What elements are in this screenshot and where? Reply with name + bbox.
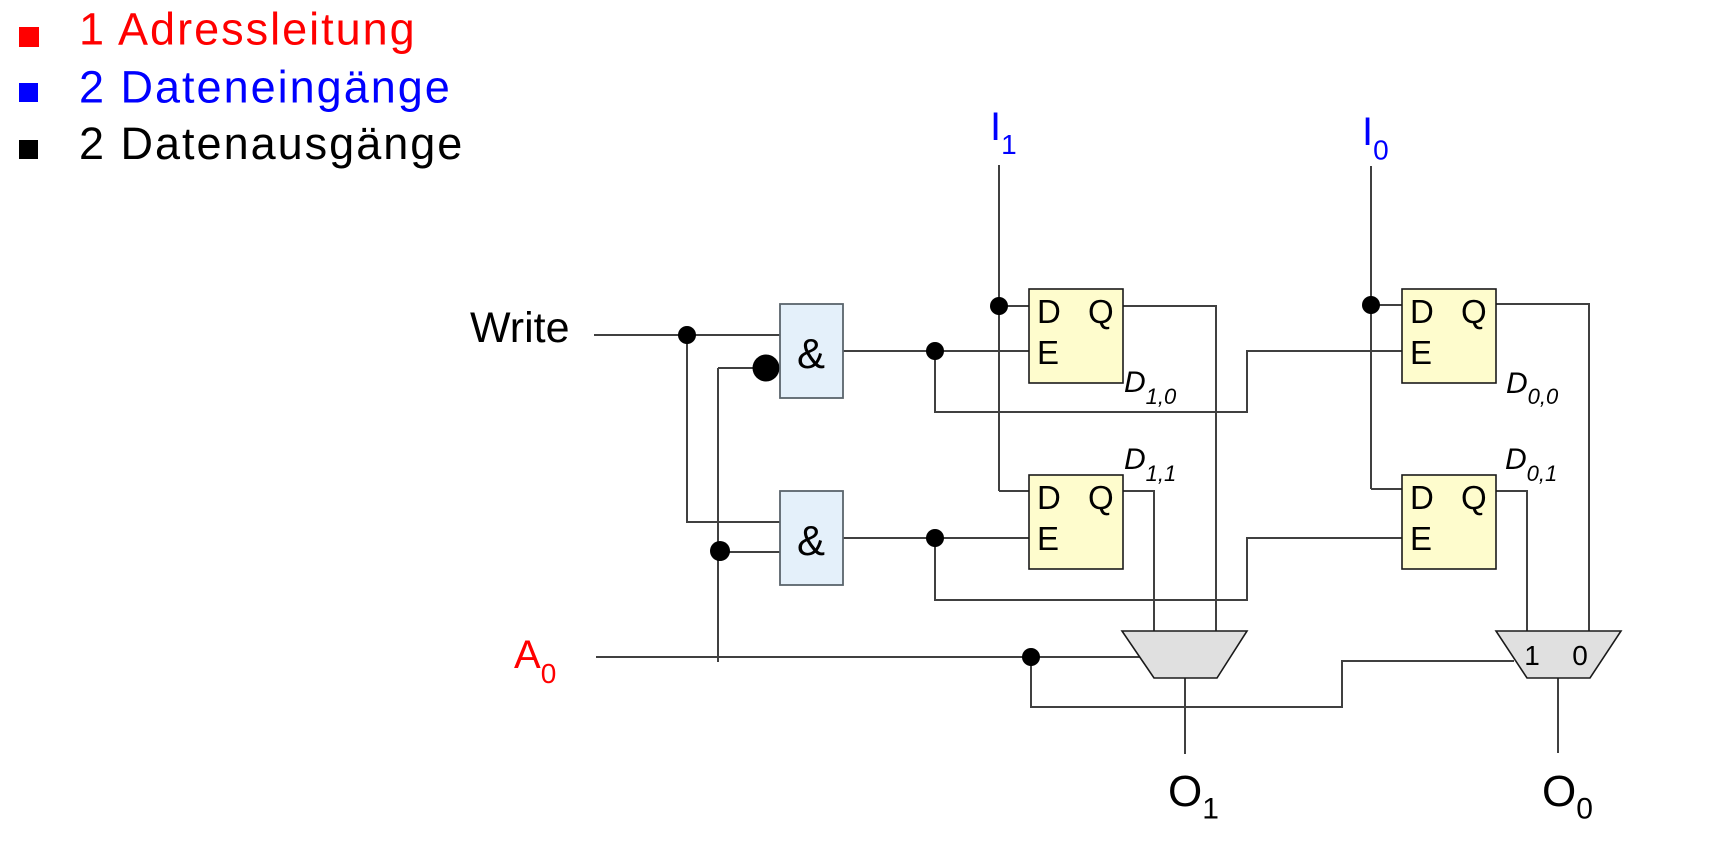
svg-text:D: D	[1410, 293, 1434, 330]
wire MUX2 output O0	[1557, 678, 1559, 753]
wire Q of D01 to MUX2	[1496, 491, 1527, 631]
wire Q of D11 to MUX1	[1123, 491, 1154, 631]
wire Write input	[594, 334, 780, 336]
node junction AND1 output	[926, 342, 944, 360]
wire I0 to D input of D01	[1371, 488, 1402, 490]
latch D00 box	[1402, 289, 1496, 383]
node junction AND2 output	[926, 529, 944, 547]
mux M1	[1122, 631, 1247, 678]
wire A0 input	[596, 656, 1140, 658]
wire Q of D10 to MUX1	[1123, 306, 1216, 631]
svg-text:Q: Q	[1088, 293, 1114, 330]
wire MUX1 output O1	[1184, 678, 1186, 754]
wire I0 to D input of D00	[1371, 304, 1402, 306]
svg-text:Write: Write	[470, 304, 570, 352]
wire I1 to D input of D11	[999, 490, 1029, 492]
node junction AND2 input2	[710, 541, 730, 561]
wire AND1 output to E of D10	[843, 350, 1029, 352]
wire I1 to D input of D10	[999, 305, 1029, 307]
wire AND2 output to E of D11	[843, 537, 1029, 539]
and-gate U1 box	[780, 304, 843, 398]
svg-text:1 Adressleitung: 1 Adressleitung	[79, 4, 417, 55]
and-gate U2 box	[780, 491, 843, 585]
svg-text:2 Datenausgänge: 2 Datenausgänge	[79, 118, 464, 169]
wire AND2 output detour to E of D01	[935, 538, 1402, 600]
wire I1 vertical	[998, 165, 1000, 491]
latch D10 box	[1029, 289, 1123, 383]
mux M2	[1496, 631, 1621, 678]
wire AND1 input2 from A0 vertical	[718, 367, 780, 369]
wire Write branch down to AND2 input1	[687, 335, 780, 522]
svg-text:E: E	[1037, 520, 1059, 557]
svg-text:Q: Q	[1088, 479, 1114, 516]
svg-text:&: &	[797, 330, 825, 377]
svg-text:D: D	[1037, 479, 1061, 516]
latch D01 box	[1402, 475, 1496, 569]
node inverter dot AND1 input2	[753, 355, 780, 382]
svg-text:&: &	[797, 517, 825, 564]
node junction I1	[990, 297, 1008, 315]
wire AND2 input2	[718, 551, 780, 553]
wire AND1 output detour to E of D00	[935, 351, 1402, 412]
latch D11 box	[1029, 475, 1123, 569]
svg-text:E: E	[1410, 520, 1432, 557]
bullet square blue	[19, 83, 38, 102]
svg-text:D: D	[1037, 293, 1061, 330]
svg-text:Q: Q	[1461, 479, 1487, 516]
bullet square red	[19, 27, 39, 47]
wire A0 branch to MUX2 select	[1031, 657, 1514, 707]
svg-text:2 Dateneingänge: 2 Dateneingänge	[79, 62, 452, 113]
svg-text:D: D	[1410, 479, 1434, 516]
bullet square black	[19, 140, 38, 159]
node junction Write/AND1	[678, 326, 696, 344]
svg-text:1: 1	[1524, 640, 1540, 671]
wire Q of D00 to MUX2	[1496, 304, 1589, 631]
svg-text:0: 0	[1572, 640, 1588, 671]
wire A0 vertical branch	[717, 368, 719, 662]
node junction A0	[1022, 648, 1040, 666]
wire I0 vertical	[1370, 166, 1372, 489]
svg-text:E: E	[1037, 334, 1059, 371]
svg-text:Q: Q	[1461, 293, 1487, 330]
node junction I0	[1362, 296, 1380, 314]
svg-text:E: E	[1410, 334, 1432, 371]
